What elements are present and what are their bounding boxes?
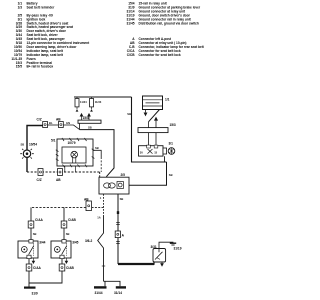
svg-text:C/AA: C/AA (33, 266, 41, 270)
svg-text:SB: SB (120, 197, 124, 201)
bulb 10/79 (71, 151, 78, 158)
legend right column (127, 2, 205, 57)
wire: feed drop to ignition area (132, 97, 167, 162)
seat belt lock 3/44 (18, 240, 46, 264)
dashed boundary row (upper) (27, 171, 100, 173)
svg-text:31/9: 31/9 (32, 292, 38, 296)
svg-text:C/Z: C/Z (37, 118, 42, 122)
svg-text:Connector for seat belt lock: Connector for seat belt lock (139, 53, 181, 57)
fuse 11/33 (90, 97, 102, 112)
fuse 11/34 (75, 97, 87, 112)
by-pass relay 2/5 (99, 173, 129, 194)
connector AB (upper) (56, 118, 63, 128)
svg-text:15/5: 15/5 (16, 65, 22, 69)
svg-text:3/1: 3/1 (169, 142, 174, 146)
svg-text:1/1: 1/1 (165, 97, 170, 101)
svg-text:31/44: 31/44 (95, 291, 103, 295)
wire: lamp feed from C/Z connector (27, 126, 43, 150)
thick run to door switch (118, 263, 154, 265)
wire C/Z to AB (48, 124, 59, 126)
relay left pin dashed down (103, 194, 105, 216)
svg-text:Distribution rail, ground via: Distribution rail, ground via door switc… (139, 21, 199, 25)
connector A (115, 231, 124, 238)
connector C/AA (lower) (26, 264, 41, 271)
svg-text:1/3: 1/3 (18, 5, 23, 9)
svg-text:SB: SB (95, 146, 99, 150)
svg-text:BL: BL (49, 121, 53, 125)
bottom ground rails 31/44 / 31/14 (94, 281, 126, 295)
wire: battery positive diagonal to 15/3 (149, 110, 160, 122)
combined instrument 5/1 (51, 138, 94, 167)
connector AB (row) (56, 169, 63, 182)
svg-text:31/14: 31/14 (114, 291, 122, 295)
ground 31/19 (159, 242, 182, 250)
svg-text:15: 15 (154, 150, 157, 154)
svg-text:31/45: 31/45 (127, 21, 135, 25)
seat belt lock 3/45 (51, 240, 79, 264)
svg-text:1A: 1A (97, 215, 100, 219)
connector C/Z (upper) (37, 118, 48, 128)
svg-text:3/44: 3/44 (39, 241, 45, 245)
wire below connector A (117, 238, 119, 264)
svg-text:SB: SB (88, 126, 92, 130)
svg-text:AB: AB (56, 118, 61, 122)
connector C/AA (upper) (28, 218, 43, 228)
svg-text:SB: SB (169, 173, 173, 177)
svg-text:11/34: 11/34 (80, 100, 87, 104)
svg-text:31/19: 31/19 (174, 247, 182, 251)
wire: ignition 15 output down to relay (164, 156, 166, 162)
left ground chain wire (98, 216, 104, 281)
wire: relay bottom pin down (117, 194, 119, 231)
svg-text:C/AA: C/AA (35, 218, 43, 222)
battery 1/1 (143, 96, 170, 110)
svg-text:C/AB: C/AB (68, 218, 76, 222)
wire: instrument output right then down (93, 150, 101, 157)
seat belt chain left drop (30, 207, 32, 221)
connector AB (lower row) (84, 197, 91, 210)
svg-text:15/3: 15/3 (170, 123, 176, 127)
svg-text:SB: SB (33, 232, 37, 236)
svg-text:11/33: 11/33 (95, 100, 102, 104)
svg-text:C/CB: C/CB (127, 53, 135, 57)
svg-text:C/Z: C/Z (37, 178, 42, 182)
svg-text:3/45: 3/45 (72, 241, 78, 245)
svg-text:GN: GN (66, 121, 70, 125)
svg-text:SB: SB (127, 112, 131, 116)
svg-text:AB: AB (56, 178, 61, 182)
connector C/AB (lower) (59, 264, 74, 271)
warning lamp 10/54 (20, 143, 37, 161)
legend left column (11, 2, 90, 69)
wire AB to feed line (63, 125, 79, 130)
door switch 3/31 (151, 245, 166, 266)
svg-text:3/6-2: 3/6-2 (85, 239, 92, 243)
svg-text:Seat belt reminder: Seat belt reminder (27, 5, 56, 9)
wire: top B+ feed line from fusebox 15/5 (74, 96, 132, 98)
positive terminal 15/3 (138, 123, 176, 132)
svg-text:SB: SB (21, 143, 25, 147)
svg-text:C/AB: C/AB (66, 266, 74, 270)
ignition lock 3/1 (139, 142, 175, 156)
junction dot (117, 211, 119, 214)
connector C/AB (upper) (61, 218, 76, 228)
bus 15/4 rail in relay unit (78, 114, 101, 124)
wires into rail 15/3 (149, 118, 158, 128)
seat belt chain right drop (63, 207, 65, 221)
svg-text:10/79: 10/79 (68, 141, 76, 145)
svg-text:2/5: 2/5 (121, 173, 126, 177)
wire: lamp down to dashed row (26, 157, 28, 172)
svg-text:B+ rail in fusebox: B+ rail in fusebox (27, 65, 54, 69)
dashed boundary row (lower) (92, 206, 104, 208)
stubs instrument to row (65, 166, 76, 172)
wire: bus 15/4 leg down (79, 123, 81, 129)
wire: battery negative stub (144, 110, 147, 116)
svg-text:5/1: 5/1 (51, 139, 56, 143)
ground 31/9 (24, 288, 38, 296)
svg-text:10/54: 10/54 (29, 143, 37, 147)
svg-text:30: 30 (140, 150, 143, 154)
wires: rail down to ignition lock (149, 133, 157, 146)
svg-text:SB: SB (66, 232, 70, 236)
connector C/Z (row) (37, 169, 44, 182)
wire: feed line to relay (80, 130, 114, 178)
